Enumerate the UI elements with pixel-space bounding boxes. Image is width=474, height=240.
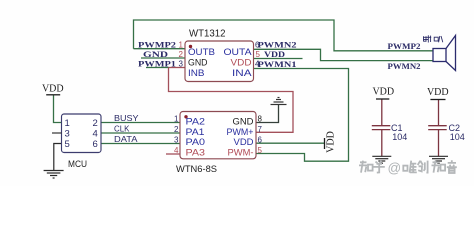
ground (WTN6 pin8, flipped up) [271, 98, 287, 105]
svg-text:VDD: VDD [427, 87, 449, 98]
svg-text:1: 1 [174, 114, 179, 123]
svg-text:PWMN2: PWMN2 [388, 61, 421, 71]
wire MCU DATA to WTN6 pin3 [101, 143, 180, 145]
创 [418, 161, 428, 173]
svg-text:6: 6 [258, 135, 263, 144]
svg-text:4: 4 [174, 146, 179, 155]
wire top loop PWMP2 (pin1 OUTB to speaker +) [134, 20, 434, 51]
wire U1 pin4 INA PWMN1 down to WTN6 pin5 PWM- [254, 69, 349, 162]
connector MCU [62, 114, 102, 153]
svg-text:PWMN2: PWMN2 [258, 40, 297, 50]
svg-text:INA: INA [232, 68, 252, 79]
svg-text:2: 2 [93, 118, 98, 129]
svg-text:1: 1 [65, 118, 70, 129]
svg-text:8: 8 [258, 114, 263, 123]
svg-text:104: 104 [392, 132, 407, 142]
音 [447, 160, 457, 167]
wire MCU CLK to WTN6 pin2 [101, 132, 180, 134]
svg-text:PWMP2: PWMP2 [388, 41, 421, 51]
svg-text:PA3: PA3 [186, 148, 206, 159]
wire red INB to WTN6 pin7 PWM+ [169, 68, 294, 133]
svg-text:WTN6-8S: WTN6-8S [176, 164, 217, 175]
wire WTN6 pin8 to ground [256, 105, 279, 123]
svg-text:OUTB: OUTB [188, 47, 215, 58]
svg-text:3: 3 [65, 128, 70, 139]
ground (C2) [429, 156, 448, 163]
知 [359, 161, 367, 173]
svg-text:3: 3 [179, 59, 184, 68]
capacitor C1 [372, 99, 391, 156]
IC U2 WTN6-8S body [180, 112, 256, 159]
svg-text:VDD: VDD [264, 49, 285, 59]
U2 pin1 dot [184, 115, 187, 118]
svg-text:PA0: PA0 [186, 137, 206, 148]
MCU pin stub 3 [52, 132, 62, 134]
svg-text:WT1312: WT1312 [189, 28, 226, 39]
wire net GND to U1 pin2 [141, 57, 185, 59]
wire MCU BUSY to WTN6 pin1 [101, 122, 180, 124]
唯 [403, 166, 407, 171]
op-amp U1 WT1312 amplifier body [185, 41, 254, 82]
svg-text:1: 1 [179, 41, 184, 50]
svg-text:VDD: VDD [326, 131, 337, 153]
svg-text:MCU: MCU [68, 159, 87, 170]
svg-text:@: @ [388, 161, 402, 176]
svg-text:BUSY: BUSY [114, 113, 139, 123]
wire red PWMP1 branch to pin3 [169, 67, 185, 69]
svg-text:VDD: VDD [42, 84, 64, 95]
svg-text:PWMN1: PWMN1 [258, 59, 297, 69]
svg-text:3: 3 [174, 135, 179, 144]
wire VDD to MCU pin1 [54, 95, 62, 123]
svg-text:7: 7 [258, 125, 263, 134]
power port VDD (C2) [430, 99, 445, 101]
svg-text:104: 104 [450, 132, 465, 142]
svg-text:DATA: DATA [114, 134, 138, 144]
svg-text:6: 6 [93, 139, 98, 150]
power port VDD (WTN6 pin6, rotated) [324, 138, 326, 149]
svg-text:VDD: VDD [372, 87, 394, 98]
power port VDD (C1) [376, 98, 389, 100]
U2 pin4 PA3 stub [166, 153, 180, 155]
svg-text:2: 2 [179, 50, 184, 59]
svg-text:GND: GND [143, 49, 168, 59]
watermark 知乎 @唯创知音 [359, 160, 457, 173]
svg-text:OUTA: OUTA [224, 47, 253, 58]
U1 pin1 dot [189, 45, 192, 48]
svg-text:VDD: VDD [231, 58, 252, 69]
ground (MCU pin5) [44, 171, 64, 179]
capacitor C2 [428, 100, 447, 157]
speaker horn [446, 36, 456, 71]
label speaker CJK 喇叭 [423, 35, 443, 42]
svg-text:5: 5 [65, 139, 70, 150]
wire MCU pin5 to ground [54, 144, 62, 171]
svg-text:VDD: VDD [234, 137, 254, 148]
wire U1 pin5 VDD stub [254, 58, 303, 60]
svg-text:INB: INB [188, 68, 205, 79]
wire WTN6 pin6 to VDD port [256, 142, 324, 144]
乎 [374, 161, 385, 173]
svg-text:5: 5 [258, 146, 263, 155]
svg-text:CLK: CLK [114, 123, 130, 133]
wire net PWMP2 to U1 pin1 [134, 48, 186, 50]
svg-text:PWM-: PWM- [228, 148, 254, 159]
知 (second) [432, 161, 440, 173]
speaker LS1 body [433, 49, 446, 62]
svg-text:5: 5 [256, 50, 261, 59]
wire U1 pin6 OUTA PWMN2 to speaker - [254, 49, 434, 60]
svg-text:PWMP1: PWMP1 [138, 59, 176, 69]
ground (C1) [372, 156, 391, 163]
svg-text:GND: GND [188, 58, 208, 69]
power port VDD (MCU) [46, 94, 60, 96]
wire net PWMP1 to U1 pin3 [146, 67, 169, 69]
svg-text:2: 2 [174, 125, 179, 134]
svg-text:4: 4 [93, 128, 98, 139]
